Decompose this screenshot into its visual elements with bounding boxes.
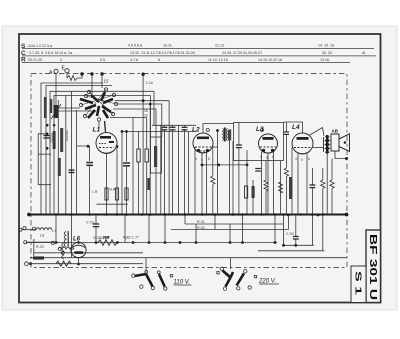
wire from node to switch bbox=[91, 74, 93, 94]
wire left column b bbox=[65, 96, 67, 215]
wire C6 to bus bbox=[89, 165, 91, 214]
junction L1 left bbox=[87, 145, 90, 148]
band switch rotary cluster bbox=[80, 92, 113, 118]
svg-text:6: 6 bbox=[208, 157, 210, 161]
antenna terminal OA bbox=[49, 69, 58, 76]
wire padder column bbox=[121, 132, 123, 215]
svg-text:AB: AB bbox=[332, 129, 339, 134]
resistor R1 bbox=[53, 131, 56, 149]
svg-text:14. 15. 16.: 14. 15. 16. bbox=[318, 44, 335, 48]
wire L6 cathode down bbox=[78, 258, 80, 264]
wire L1 grid bbox=[77, 110, 87, 146]
bus junction dots bbox=[55, 213, 324, 216]
wire C7 to bus bbox=[126, 166, 128, 214]
capacitor C1 bbox=[44, 136, 50, 139]
dashed chassis box bbox=[31, 74, 347, 268]
svg-text:L4: L4 bbox=[292, 124, 300, 131]
wire osc top bbox=[101, 74, 103, 88]
wire drop 288 bbox=[287, 215, 289, 230]
wire L1 cathode drop bbox=[88, 146, 90, 161]
junction bracket bbox=[46, 133, 49, 136]
contact square 220V left bbox=[217, 272, 219, 274]
svg-text:19: 19 bbox=[144, 114, 148, 118]
wire drop 322 bbox=[322, 215, 324, 251]
heater winding bbox=[64, 231, 68, 247]
wire L3 right pin bbox=[272, 152, 274, 214]
heater coil L7 bbox=[58, 247, 74, 249]
node junction dots on dashed line bbox=[80, 72, 103, 75]
wire HT line bbox=[26, 242, 277, 244]
resistor antenna series bbox=[67, 73, 82, 81]
wire top interconnect c bbox=[113, 109, 156, 214]
contact square 110V bbox=[170, 275, 172, 277]
svg-text:S: S bbox=[21, 43, 26, 50]
svg-text:24.25. 27.29.31.05.26.27.: 24.25. 27.29.31.05.26.27. bbox=[222, 51, 263, 55]
wire L2 left pin bbox=[194, 147, 196, 214]
border frame bbox=[19, 34, 381, 303]
svg-text:4.5.9.6.8.: 4.5.9.6.8. bbox=[128, 44, 143, 48]
resistor R18 zigzag bbox=[264, 180, 268, 191]
resistor R10 bbox=[125, 188, 128, 200]
wire col 160 bbox=[160, 125, 162, 214]
wire drop 149 bbox=[148, 215, 150, 243]
main ground bus bbox=[27, 213, 348, 217]
wire drop 71 bbox=[71, 215, 73, 257]
table row R values bbox=[27, 58, 330, 62]
junction L1 right bbox=[116, 145, 119, 148]
resistor R9 bbox=[115, 188, 118, 200]
IF coil primary bbox=[223, 128, 228, 142]
svg-text:R.23: R.23 bbox=[36, 245, 44, 249]
wire terminals to coil bbox=[22, 229, 36, 231]
wire L1 right pin bbox=[116, 147, 118, 215]
svg-text:L8: L8 bbox=[40, 234, 44, 238]
wire mains line bbox=[30, 257, 347, 259]
svg-text:5.5.: 5.5. bbox=[100, 58, 106, 62]
mains switch 110V bbox=[135, 274, 165, 287]
svg-text:L7: L7 bbox=[52, 229, 56, 233]
resistor R15 bbox=[284, 150, 288, 214]
svg-text:4: 4 bbox=[295, 157, 297, 161]
wire drop 56 bbox=[55, 215, 57, 243]
svg-text:13.16.: 13.16. bbox=[320, 58, 330, 62]
wire bottom link bbox=[28, 263, 143, 265]
terminal post F bbox=[51, 241, 54, 244]
speaker bbox=[331, 134, 350, 152]
capacitor C11 bbox=[170, 125, 176, 214]
wire L4 top feed bbox=[284, 122, 303, 133]
wire can connector bbox=[153, 91, 155, 125]
wire HT segment 2 bbox=[258, 250, 324, 252]
parts table rule R bbox=[22, 61, 350, 63]
tube L6 rectifier bbox=[71, 242, 86, 257]
pin labels L2 bbox=[195, 157, 210, 162]
pickup coil L8 bbox=[36, 228, 52, 230]
resistor R3 bbox=[60, 128, 63, 152]
svg-text:R.30: R.30 bbox=[197, 226, 205, 230]
wire B+ line R31 bbox=[185, 223, 284, 225]
svg-text:RR: RR bbox=[103, 235, 110, 240]
capacitor C27 bbox=[284, 122, 289, 150]
svg-text:10.11.: 10.11. bbox=[163, 44, 173, 48]
wire drop 196 bbox=[195, 224, 197, 243]
wire coil to tube bbox=[56, 110, 96, 112]
junction grid line bbox=[121, 130, 128, 133]
coil bar upper bbox=[44, 97, 47, 118]
junction dots HT bbox=[55, 214, 320, 247]
resistor R7 bbox=[145, 118, 148, 215]
wire star to grid cap bbox=[98, 121, 100, 129]
wire drop 215 bbox=[214, 215, 216, 230]
wire B+ line R30 bbox=[171, 229, 288, 231]
svg-text:S 1: S 1 bbox=[354, 271, 364, 295]
220V label bbox=[258, 279, 279, 285]
wire right HT segment bbox=[284, 244, 314, 246]
heater winding arcs bbox=[62, 243, 64, 259]
svg-text:14.15.19.22.16.: 14.15.19.22.16. bbox=[258, 58, 283, 62]
wire drop 275 bbox=[274, 215, 276, 243]
capacitor C14 bbox=[236, 123, 242, 214]
wire top interconnect a bbox=[115, 100, 169, 102]
wire left column c bbox=[71, 91, 73, 214]
capacitor C36 bbox=[310, 168, 316, 215]
wire heater line bbox=[34, 252, 143, 254]
wire L7 to L6 bbox=[71, 248, 74, 250]
wire drop 125 bbox=[124, 215, 126, 243]
wire step link bbox=[97, 203, 128, 205]
svg-text:L6: L6 bbox=[73, 237, 81, 243]
wire cap column bbox=[126, 132, 128, 162]
terminal post E bbox=[25, 262, 29, 266]
wire L4 left pin bbox=[291, 148, 293, 215]
svg-text:5: 5 bbox=[301, 158, 303, 162]
capacitor C39 bbox=[293, 215, 299, 245]
output transformer bbox=[324, 135, 330, 154]
coupling bar bbox=[147, 178, 150, 190]
wire shield box 4 bbox=[54, 96, 151, 121]
capacitor C12 bbox=[182, 125, 188, 214]
node IF feed bbox=[141, 73, 144, 103]
wire L1 grid cap link bbox=[105, 121, 106, 132]
wire terminal column bbox=[33, 239, 35, 256]
BF301U title box bbox=[366, 230, 381, 303]
svg-text:L.R: L.R bbox=[92, 190, 98, 194]
wire L6 top feed bbox=[78, 243, 80, 244]
S1 box bbox=[351, 266, 366, 303]
svg-text::23.21.20.: :23.21.20. bbox=[27, 58, 43, 62]
wire col 233 bbox=[232, 141, 234, 214]
wire L4 to output top bbox=[309, 128, 324, 137]
wire col 188 bbox=[188, 132, 190, 215]
resistor R21 bar bbox=[289, 177, 292, 199]
svg-text:R.R: R.R bbox=[110, 188, 116, 192]
svg-text::1/2a 1.2.12 5.a.: :1/2a 1.2.12 5.a. bbox=[27, 44, 53, 48]
capacitor C16 bbox=[255, 169, 261, 172]
wire L3 anode down bbox=[267, 153, 269, 214]
table row labels bbox=[21, 43, 26, 64]
svg-text:30000Ω: 30000Ω bbox=[65, 130, 69, 142]
svg-text:11.10. 12.15.: 11.10. 12.15. bbox=[208, 58, 229, 62]
capacitor C7 bbox=[123, 163, 130, 166]
wire left column a bbox=[57, 100, 59, 214]
svg-text:R: R bbox=[21, 57, 26, 64]
svg-text:13.32. 13.11.12.7/8.9.17/8.17/: 13.32. 13.11.12.7/8.9.17/8.17/8.21.24.26… bbox=[130, 51, 196, 55]
svg-text:4700Ω: 4700Ω bbox=[50, 133, 54, 143]
svg-text:12.13.: 12.13. bbox=[215, 44, 225, 48]
wire top interconnect d bbox=[110, 117, 147, 119]
terminal post A bbox=[19, 228, 22, 231]
wire top interconnect b bbox=[116, 104, 162, 137]
wire switch feed a bbox=[145, 258, 147, 272]
resistor R2 zigzag bbox=[56, 261, 71, 266]
parts table rule C bbox=[22, 55, 376, 57]
wire col 280 bbox=[280, 161, 282, 214]
tube L3 shield box bbox=[234, 123, 284, 161]
svg-text:Ai.: Ai. bbox=[362, 51, 366, 55]
resistor R13 bbox=[245, 186, 248, 198]
junction staircase dots bbox=[149, 103, 152, 106]
resistor R19 zigzag bbox=[279, 182, 283, 193]
junction mains bbox=[29, 262, 32, 265]
wire col 253 bbox=[252, 180, 254, 214]
svg-text:4.7.6.: 4.7.6. bbox=[130, 58, 139, 62]
svg-text:2.: 2. bbox=[60, 58, 63, 62]
filter choke bbox=[33, 256, 44, 259]
terminal post C bbox=[32, 227, 35, 230]
mains switch 220V bbox=[223, 271, 245, 287]
svg-text:L2: L2 bbox=[192, 127, 200, 134]
wire shield box 3 bbox=[50, 91, 154, 214]
pin labels L3 bbox=[260, 155, 274, 160]
wire IF to bus bbox=[229, 141, 231, 215]
svg-text:L3: L3 bbox=[256, 126, 264, 133]
wire left bracket bbox=[38, 134, 51, 185]
wire col 169 upper bbox=[168, 101, 170, 126]
wire speaker return bbox=[335, 152, 347, 159]
junction mid link bbox=[201, 164, 249, 167]
contact square 220V bbox=[254, 275, 256, 277]
resistor R28 zigzag bbox=[330, 159, 334, 216]
svg-text:C.39: C.39 bbox=[286, 232, 294, 236]
wire transformer to bus bbox=[326, 154, 328, 215]
wire L4 anode down bbox=[297, 154, 299, 215]
svg-text:15: 15 bbox=[104, 79, 110, 84]
parts table rule S bbox=[22, 48, 374, 50]
coil bar upper b bbox=[50, 99, 53, 113]
tube L3 bbox=[259, 134, 278, 153]
tube L4 bbox=[292, 133, 313, 154]
wire switch feed b bbox=[230, 258, 232, 269]
wire drop 185 bbox=[184, 215, 186, 224]
tube L2 bbox=[193, 133, 213, 153]
wire L3 left pin bbox=[261, 152, 263, 214]
wire column d bbox=[53, 120, 55, 214]
resistor R8 bbox=[105, 188, 108, 200]
wire L2 top to L3 box bbox=[203, 124, 234, 134]
junction L6 top bbox=[77, 241, 80, 244]
wire L1 anode down bbox=[106, 154, 108, 215]
resistor R29 zigzag bbox=[321, 168, 325, 215]
capacitor C74 bbox=[86, 215, 99, 243]
svg-text:C.1a: C.1a bbox=[146, 81, 153, 85]
tube L1 bbox=[96, 133, 117, 154]
svg-text:RβΩ C.77: RβΩ C.77 bbox=[123, 236, 139, 240]
wire col 169 bbox=[168, 125, 170, 214]
grid cap L3 bbox=[261, 129, 264, 132]
wire L2 right pin bbox=[212, 147, 218, 214]
grid cap L2 bbox=[206, 129, 209, 132]
capacitor C10 bbox=[162, 125, 168, 214]
wire drop 242 bbox=[242, 215, 244, 243]
terminal post D bbox=[24, 241, 27, 244]
wire shield box 2 bbox=[46, 86, 112, 215]
junction speaker return bbox=[345, 157, 348, 160]
resistor R4 bbox=[58, 158, 61, 176]
table row C values bbox=[27, 51, 366, 55]
pin labels L4 bbox=[295, 157, 310, 162]
resistor R5 bbox=[137, 109, 148, 214]
svg-text:8.: 8. bbox=[158, 58, 161, 62]
junction 217 bbox=[216, 129, 219, 132]
resistor R12 hatched bbox=[228, 130, 231, 141]
table row S values bbox=[27, 44, 335, 49]
junction L6 bottom bbox=[77, 263, 80, 266]
capacitor C6 bbox=[86, 163, 93, 166]
wire drop 283 bbox=[283, 215, 285, 245]
terminal post B bbox=[23, 227, 26, 230]
wire L4 mid down bbox=[306, 154, 308, 215]
svg-text:R.31: R.31 bbox=[197, 220, 205, 224]
earth terminal OE bbox=[62, 66, 70, 73]
winding contact b bbox=[61, 251, 64, 254]
110V label bbox=[174, 280, 192, 286]
wire L2 anode down bbox=[201, 153, 203, 214]
capacitor C2 bbox=[69, 170, 75, 173]
wire drop 312 bbox=[311, 215, 313, 245]
wire drop 165 bbox=[164, 215, 166, 243]
IF can box bbox=[151, 137, 162, 173]
wire col 206 bbox=[206, 151, 208, 214]
resistor R11 zigzag bbox=[211, 146, 215, 214]
wire mid link bbox=[202, 164, 247, 166]
resistor R14 bbox=[252, 186, 255, 198]
svg-text:6: 6 bbox=[308, 157, 310, 161]
wire coil L7 link bbox=[27, 241, 58, 243]
wire caps feed line bbox=[152, 124, 196, 126]
wire grid line L2 bbox=[122, 131, 196, 133]
wire col 133 bbox=[132, 118, 134, 215]
svg-text:C.7a: C.7a bbox=[86, 221, 94, 225]
wire antenna lead bbox=[55, 73, 57, 108]
svg-text:BF 301 U: BF 301 U bbox=[367, 234, 379, 300]
switch 220V contacts bbox=[220, 267, 251, 290]
wire IF coupling top bbox=[217, 131, 219, 148]
wire drop 230 bbox=[229, 224, 231, 243]
band switch spokes bbox=[81, 90, 116, 117]
wire IF feed drop bbox=[142, 74, 144, 214]
wire shield box left bbox=[41, 83, 103, 214]
svg-text:16: 16 bbox=[144, 109, 148, 113]
switch 110V contacts bbox=[132, 270, 167, 290]
band switch contacts bbox=[79, 88, 117, 121]
wire col 247 bbox=[246, 150, 248, 214]
winding contact a bbox=[58, 248, 61, 251]
wire col 178 bbox=[178, 125, 180, 214]
svg-text:: 3.7.25. 9. 3.6.5..M.1: : 3.7.25. 9. 3.6.5..M.10.a. 1a. bbox=[27, 51, 73, 55]
wire col 266 bbox=[265, 161, 267, 214]
svg-text:30. 32.: 30. 32. bbox=[322, 51, 333, 55]
wire L4 to transformer bbox=[313, 147, 324, 149]
oscillator coil core bbox=[51, 104, 61, 119]
resistor RR zigzag bbox=[98, 240, 117, 246]
svg-text:L1: L1 bbox=[93, 127, 101, 134]
